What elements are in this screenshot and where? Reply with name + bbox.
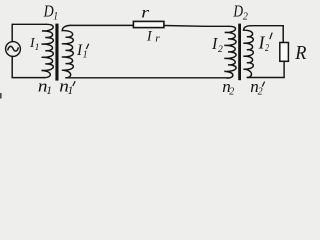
svg-text:2: 2 [218, 45, 223, 55]
label n1prime [59, 76, 75, 97]
wire R bottom stub [283, 61, 285, 77]
inductor L1 primary winding of transformer D1 [42, 24, 54, 77]
svg-text:1: 1 [83, 50, 88, 61]
core of transformer D2 [238, 24, 241, 81]
svg-text:2: 2 [229, 86, 234, 97]
wire top left horizontal [12, 23, 46, 25]
wire R top stub [282, 26, 284, 43]
svg-text:2: 2 [265, 42, 269, 53]
label Ir [146, 29, 161, 45]
core of transformer D1 [55, 24, 58, 81]
label I1prime [76, 42, 89, 61]
svg-text:1: 1 [35, 43, 40, 53]
inductor L2 secondary winding of transformer D1 [62, 25, 74, 77]
label n2prime [250, 77, 264, 97]
wire D2 secondary top to resistor R [251, 25, 283, 27]
svg-text:1: 1 [46, 85, 52, 97]
resistor R body [280, 43, 289, 62]
svg-text:2: 2 [243, 11, 248, 22]
svg-text:1: 1 [68, 85, 74, 97]
wire bottom right horizontal [247, 77, 284, 79]
svg-text:r: r [141, 3, 150, 21]
svg-text:D: D [233, 4, 244, 22]
svg-text:R: R [294, 42, 306, 64]
edge smudge bottom left [0, 93, 2, 99]
label I1 [29, 35, 39, 53]
label D1 [43, 2, 58, 22]
label I2prime [258, 32, 273, 53]
wire resistor r to transformer D2 [164, 25, 229, 28]
wire bottom left horizontal [12, 77, 44, 79]
label n2 [222, 77, 234, 97]
label n1 [38, 76, 52, 97]
wire D1 secondary top to resistor r [70, 24, 133, 26]
wire source bottom stub [11, 56, 13, 77]
svg-text:1: 1 [53, 10, 58, 23]
resistor r body [133, 21, 164, 27]
sine wave inside source [8, 46, 18, 51]
inductor L4 secondary winding of transformer D2 [243, 26, 253, 78]
label I2 [211, 34, 223, 55]
label D2 [233, 4, 248, 23]
inductor L3 primary winding of transformer D2 [224, 26, 236, 78]
svg-text:2: 2 [258, 86, 263, 97]
background paper [0, 0, 308, 100]
AC source G [6, 42, 21, 57]
wire source top stub [11, 24, 13, 41]
wire bottom middle horizontal [66, 77, 228, 79]
